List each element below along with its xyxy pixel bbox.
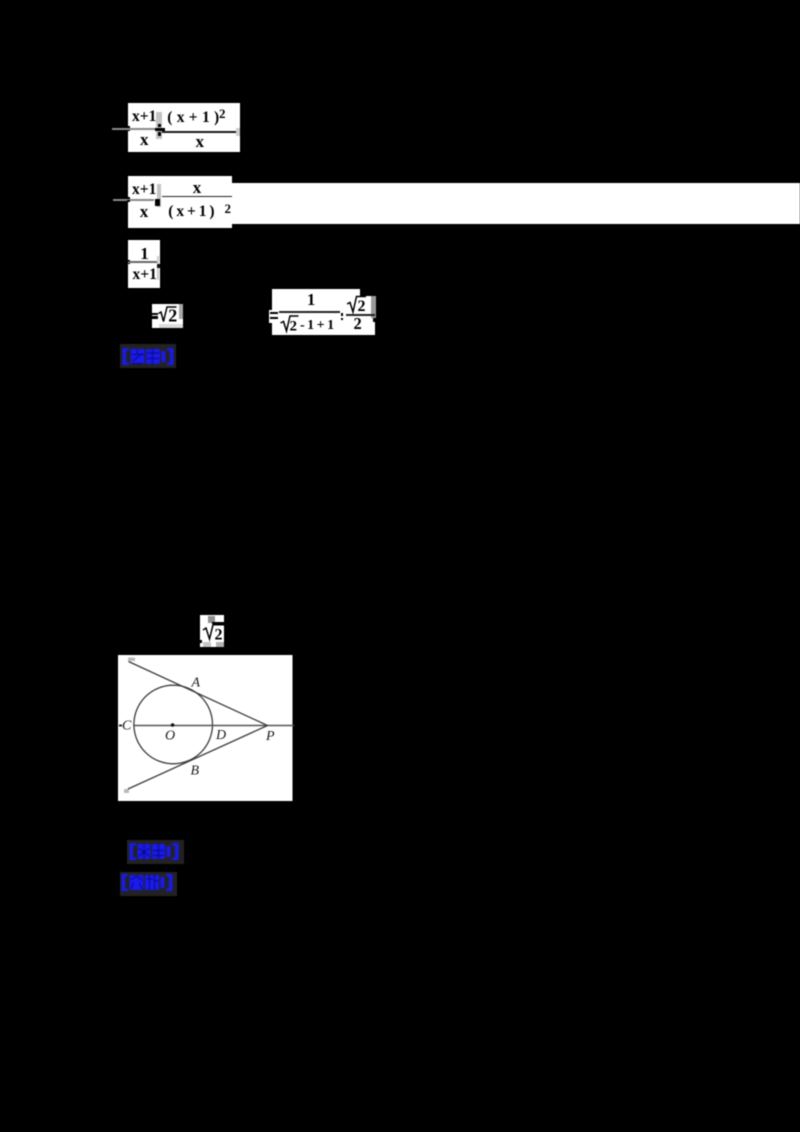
- grey specks at tangent line starts: [128, 658, 135, 662]
- svg-text:P: P: [265, 729, 275, 744]
- horizontal secant line C-O-D-P: [119, 725, 122, 727]
- svg-text:-1+1: -1+1: [300, 318, 337, 333]
- upper tangent PA: [129, 662, 268, 726]
- svg-text:B: B: [191, 764, 200, 779]
- svg-text:2: 2: [215, 626, 223, 643]
- lower tangent PB: [128, 726, 268, 790]
- svg-text:D: D: [215, 728, 226, 743]
- svg-text:A: A: [191, 676, 201, 691]
- svg-text:C: C: [122, 719, 132, 734]
- circle: [134, 685, 213, 764]
- svg-text:2: 2: [358, 298, 366, 314]
- svg-text:2: 2: [168, 306, 177, 326]
- center dot: [171, 723, 175, 727]
- svg-text:O: O: [165, 729, 175, 744]
- svg-text:2: 2: [290, 318, 298, 334]
